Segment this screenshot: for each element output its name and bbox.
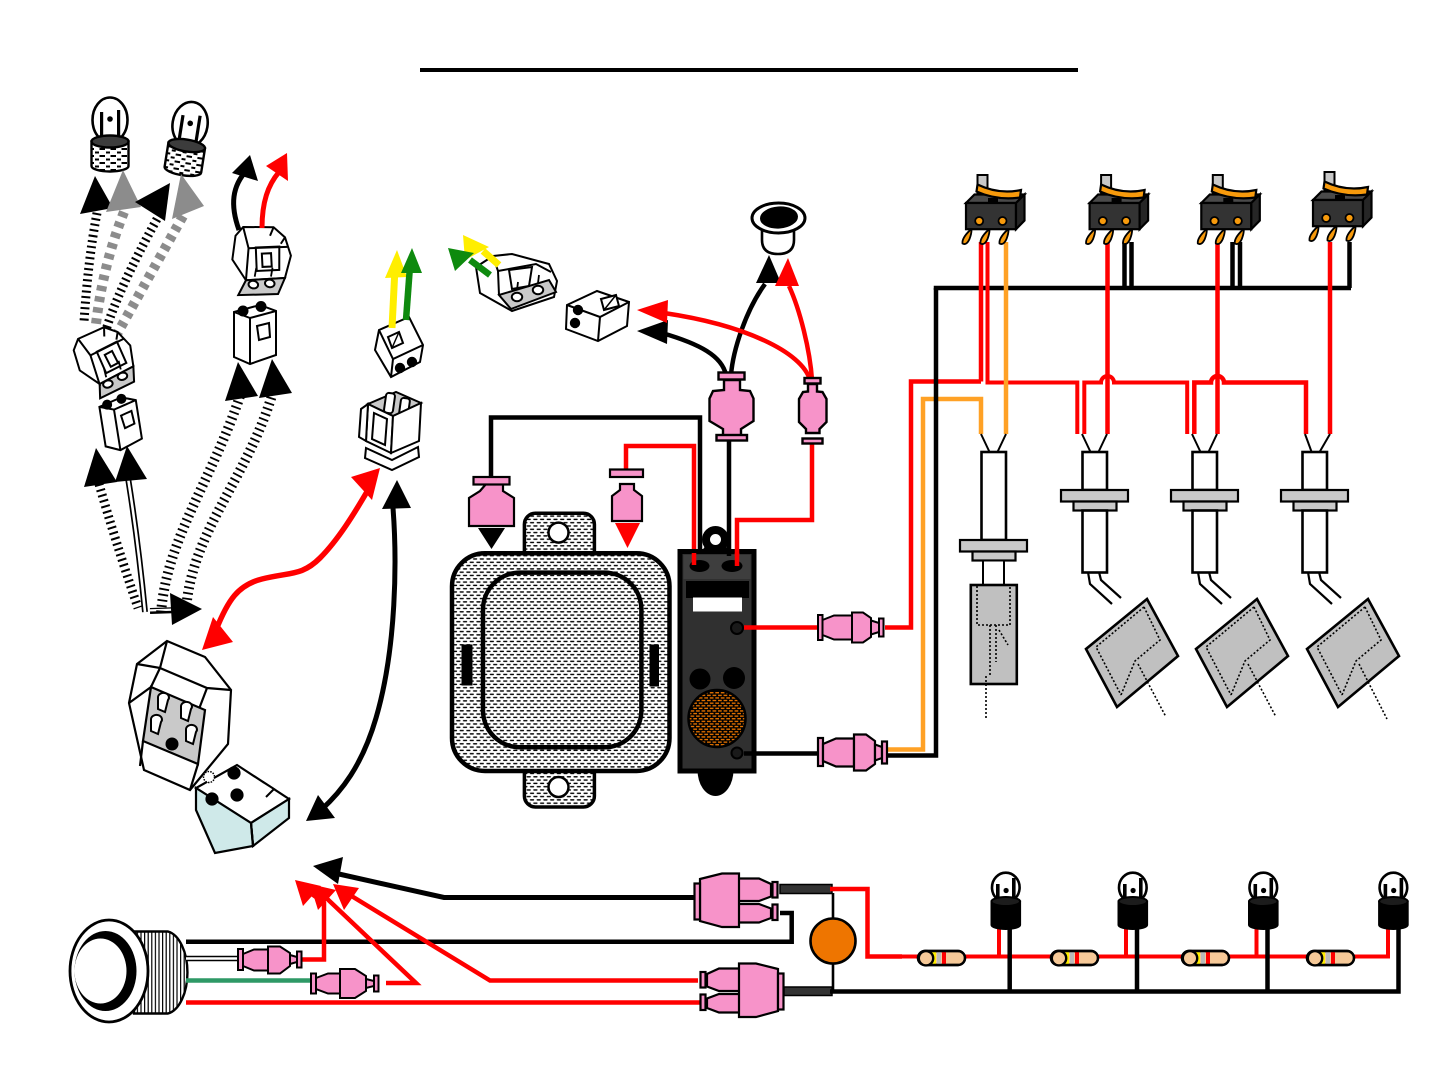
red wire tip into device left terminal <box>692 553 697 565</box>
arrow head to connector D (left) <box>225 362 258 401</box>
arrow head black to connector B <box>84 448 117 487</box>
black arrow shaft: fuse F1 to connector H <box>662 333 726 375</box>
bulb IB3 leads <box>1255 928 1259 957</box>
thick stub from lower molex <box>784 987 832 996</box>
indicator bulb IB1 <box>992 873 1021 929</box>
yellow arrow from connector F <box>392 268 395 328</box>
resistor R1 <box>918 951 965 965</box>
red wire: fuse F2 down to device <box>737 442 812 556</box>
lamp socket L4 <box>1281 434 1399 719</box>
switch SW4 red pin wire to lamp4 <box>1328 242 1333 434</box>
connector H (small box with 2 dots) <box>566 291 629 341</box>
big plug (isometric, bottom-left) <box>129 641 231 790</box>
arrow head black to connector B (right) <box>115 446 147 482</box>
dashed trail to connector B (black hatch) <box>99 484 138 608</box>
bullet connector 2 <box>311 969 379 998</box>
green arrow from connector G <box>470 260 490 275</box>
black arrow (from upper molex to plug area) <box>330 872 697 898</box>
yellow arrow from connector G <box>483 251 499 265</box>
black ground bus (bottom) <box>830 928 1399 992</box>
orange cap <box>811 919 856 964</box>
black arrow head at push button <box>756 255 781 283</box>
connector C (isometric plug, bottom view) <box>225 221 295 303</box>
lamp socket L2 <box>1061 434 1178 717</box>
microswitch SW4 <box>1309 172 1371 241</box>
molex pair upper (to flipper button circuit) <box>695 874 778 928</box>
transformer <box>452 513 670 807</box>
bulb IB1 leads <box>997 928 1001 957</box>
microswitch SW2 <box>1086 175 1148 244</box>
switch SW3 black pin wires <box>1230 242 1235 288</box>
microswitch SW3 <box>1198 175 1260 244</box>
arrow head gray to bulb B2 <box>172 174 204 219</box>
dashed trail to bulb B1 (gray) <box>96 212 124 324</box>
black arrow shaft: fuse F1 to push button <box>731 284 765 375</box>
connector F (tilted box with 2 dots) <box>375 317 423 377</box>
connector B (box with 2 pin dots) <box>98 393 143 453</box>
connector A (isometric plug, bottom view) <box>70 322 141 402</box>
red arrow 2 (from bullet 2 to plug area) <box>321 893 416 983</box>
black arrow head at connector H <box>637 320 668 344</box>
red lamp feed bus (bottom) <box>900 928 1388 957</box>
indicator bulb IB3 <box>1249 873 1278 929</box>
switch SW1 orange pin wire to lamp1 <box>1004 242 1009 434</box>
arrow head gray to bulb B1 <box>106 170 141 212</box>
switch SW2 red pin wire to lamp2 <box>1105 242 1110 434</box>
short black arrow to plug area <box>150 610 180 611</box>
resistor R3 <box>1182 951 1229 965</box>
red arrow head at connector H <box>637 300 668 323</box>
resistor R4 <box>1307 951 1354 965</box>
red wire from stub to resistor bus <box>830 889 902 957</box>
molex pair lower (lamp feed) <box>701 964 784 1018</box>
bulb B2 (top-left) <box>164 99 212 178</box>
microswitch SW1 <box>962 175 1024 244</box>
switch SW1 red pin wire to bus <box>979 242 984 382</box>
fuse holder F2 <box>799 378 827 444</box>
dashed trail to bulb B1 (black) <box>84 213 97 322</box>
black curved double arrow (connector E to plug) <box>321 496 395 810</box>
red arrow head at push button <box>775 258 799 286</box>
indicator bulb IB4 <box>1379 873 1408 929</box>
vertical link wire behind orange cap <box>832 893 835 990</box>
dashed trail to bulb B2 (gray) <box>117 216 183 334</box>
arrow head to connector D (right) <box>259 359 292 398</box>
hatched trail to connector D (right) <box>186 392 273 610</box>
switch SW3 red pin wire to lamp3 <box>1215 242 1220 434</box>
red wire from button to bottom connector <box>186 1000 700 1005</box>
red wire tip into device right terminal <box>735 553 740 566</box>
red arrow shaft: fuse F2 to push button <box>789 286 812 380</box>
bulb B1 (top-left) <box>92 98 129 172</box>
red arrow 3 (from lower molex to plug area) <box>345 892 698 981</box>
fuse holder F1 <box>710 373 754 441</box>
white wire from button <box>186 956 240 962</box>
push button (top view) <box>752 203 805 254</box>
double-line trail to connector B <box>128 478 145 612</box>
indicator bulb IB2 <box>1119 873 1148 929</box>
red arrow 1 (from bullet 1 to plug area) <box>302 889 324 960</box>
black wire: connector P3 to device <box>491 418 700 563</box>
green wire from button <box>186 978 313 983</box>
switch SW1 red pin 2 wire, lamp daisy bus with hops <box>988 242 1078 434</box>
inline connector IC2 (black/orange, right of device) <box>744 751 818 756</box>
inline connector IC1 (red, right of device) <box>744 625 818 630</box>
red arrow shaft: fuse F2 to connector H <box>664 313 810 380</box>
resistor R2 <box>1051 951 1098 965</box>
lamp socket L3 <box>1171 434 1288 717</box>
dashed trail to bulb B2 (black) <box>106 219 157 330</box>
bullet connector 1 <box>238 947 302 974</box>
pink connector P4 with red arrow <box>610 470 643 549</box>
arrow head black to bulb B1 <box>80 176 113 214</box>
switch SW4 black pin wire <box>1347 242 1352 288</box>
black wire from button to bottom connector <box>186 913 792 942</box>
arrow head black to bulb B2 <box>135 183 170 221</box>
red wire: connector P4 to device <box>626 446 694 562</box>
black ground bus for switches <box>936 288 1351 290</box>
title underline <box>420 68 1078 72</box>
connector G (isometric plug with yellow/green arrows) <box>476 254 557 311</box>
green arrow from connector F <box>406 266 410 320</box>
connector E (plug with 2 pins up) <box>359 392 421 470</box>
pink connector P3 with black arrow <box>469 477 514 549</box>
red curved arrow from connector C <box>262 172 279 228</box>
connector D (box with 2 pin dots) <box>234 302 276 364</box>
bulb IB2 leads <box>1124 928 1128 957</box>
black wire: fuse F1 down to device <box>727 440 732 556</box>
thick stub from upper molex <box>780 885 832 894</box>
lamp socket L1 <box>960 434 1027 718</box>
pale blue connector box <box>196 765 289 853</box>
red S-curve double arrow <box>216 490 368 630</box>
switch SW2 black pin wires <box>1122 242 1127 288</box>
hatched trail to connector D (left) <box>161 396 240 614</box>
black curved arrow from connector C <box>234 170 247 230</box>
round push-button (bottom-left) <box>70 920 187 1022</box>
flasher device (black board) <box>680 526 754 796</box>
